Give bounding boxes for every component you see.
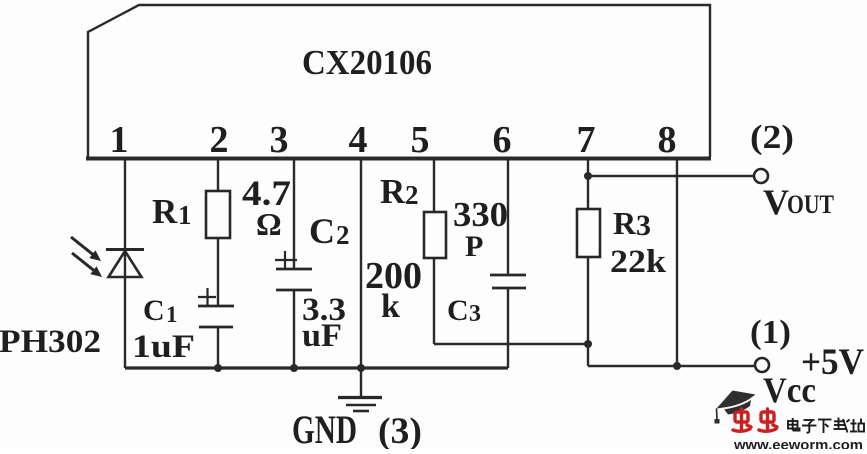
svg-text:3: 3: [636, 209, 651, 242]
svg-text:1: 1: [166, 302, 178, 327]
wire pin7 to VOUT terminal: [588, 175, 754, 177]
resistor R2: [424, 212, 446, 258]
svg-text:(3): (3): [378, 411, 422, 449]
svg-text:3: 3: [270, 119, 289, 161]
wire R2 bottom to R3 node: [434, 343, 588, 345]
watermark graduation cap logo: [715, 391, 756, 424]
resistor R3: [577, 209, 600, 257]
svg-text:(1): (1): [750, 314, 791, 351]
svg-text:22k: 22k: [610, 244, 667, 280]
svg-text:Ω: Ω: [256, 206, 282, 242]
svg-text:1: 1: [178, 200, 192, 230]
svg-text:1: 1: [110, 119, 129, 161]
svg-text:Vcc: Vcc: [763, 370, 816, 410]
svg-text:1uF: 1uF: [132, 329, 195, 365]
wire C3 to ground rail: [507, 288, 509, 368]
capacitor C1: [198, 306, 234, 327]
svg-text:2: 2: [405, 180, 419, 210]
capacitor C2: [276, 269, 312, 290]
svg-text:PH302: PH302: [0, 324, 101, 360]
wire R2 down: [433, 258, 435, 344]
capacitor C2 plus sign: [275, 251, 297, 269]
ground symbol: [338, 368, 382, 411]
svg-text:4: 4: [349, 119, 368, 161]
svg-text:330: 330: [453, 195, 508, 234]
junction C2/ground: [290, 364, 298, 372]
svg-text:P: P: [465, 230, 483, 263]
svg-text:OUT: OUT: [787, 190, 834, 219]
watermark site name glyphs: [788, 418, 864, 434]
svg-text:3: 3: [469, 301, 481, 327]
svg-text:7: 7: [577, 119, 596, 161]
IC U1 CX20106 body: [86, 5, 711, 159]
svg-text:GND: GND: [292, 407, 357, 449]
resistor R1: [206, 191, 230, 238]
svg-text:6: 6: [493, 119, 512, 161]
svg-text:k: k: [381, 288, 400, 325]
junction pin8/Vcc: [673, 362, 681, 370]
svg-text:C: C: [309, 211, 335, 251]
wire R1 to C1: [217, 238, 219, 306]
svg-text:C: C: [447, 294, 469, 327]
wire pin8 vertical: [676, 158, 678, 366]
wire R3 down: [587, 257, 589, 344]
svg-text:R: R: [152, 192, 178, 231]
wire C1 to ground rail: [217, 327, 219, 368]
junction R2/R3 node: [584, 340, 592, 348]
capacitor C1 plus sign: [198, 288, 216, 306]
wire C2 to ground rail: [293, 290, 295, 368]
svg-text:V: V: [763, 182, 789, 222]
svg-text:CX20106: CX20106: [302, 43, 432, 82]
junction pin7/VOUT: [584, 172, 592, 180]
wire pin6 to C3: [507, 158, 509, 275]
svg-text:2: 2: [210, 119, 229, 161]
svg-text:R: R: [380, 172, 406, 211]
wire pin4 to ground rail: [360, 158, 362, 368]
svg-text:R: R: [613, 205, 637, 241]
ground rail wire: [125, 366, 508, 369]
svg-text:uF: uF: [302, 318, 342, 354]
svg-text:2: 2: [336, 220, 350, 250]
svg-text:www.eeworm.com: www.eeworm.com: [733, 438, 863, 450]
watermark bug characters: [733, 409, 777, 431]
wire pin5 to R2: [433, 158, 435, 212]
capacitor C3: [490, 275, 526, 288]
svg-text:C: C: [143, 294, 165, 327]
wire pin2 to R1: [217, 158, 219, 192]
wire jog down to Vcc rail: [587, 344, 589, 366]
junction pin4/ground: [357, 364, 365, 372]
svg-text:8: 8: [658, 119, 677, 161]
photodiode PH302: [71, 237, 144, 277]
wire Vcc rail to terminal: [588, 365, 755, 367]
junction C1/ground: [214, 364, 222, 372]
svg-text:5: 5: [411, 119, 430, 161]
wire pin1 vertical: [124, 158, 126, 368]
wire pin3 to C2: [293, 158, 295, 269]
wire pin7 vertical: [587, 158, 589, 209]
terminal (1) +5V Vcc: [755, 358, 769, 372]
svg-text:(2): (2): [750, 119, 794, 156]
terminal (2) VOUT: [754, 169, 768, 183]
